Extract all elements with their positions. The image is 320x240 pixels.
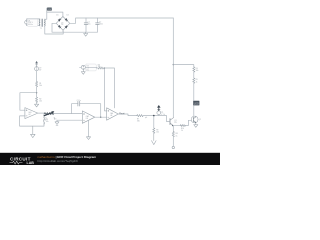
diode D3 xyxy=(58,25,61,28)
node reference split xyxy=(104,67,105,68)
wire R8 to terminal xyxy=(172,137,174,147)
wire op-amp1 output xyxy=(38,112,54,115)
net flag LED node xyxy=(193,101,199,106)
svg-text:http://circuitlab.com/c/7eq5g4: http://circuitlab.com/c/7eq5g4r9 xyxy=(38,159,79,163)
resistor R4 xyxy=(193,67,199,72)
svg-text:1k: 1k xyxy=(181,130,183,132)
node probe tap xyxy=(153,115,155,117)
terminal node xyxy=(172,146,174,148)
wire probe stem xyxy=(158,115,160,116)
resistor R7 xyxy=(137,115,143,123)
svg-text:10u: 10u xyxy=(88,24,91,26)
node rail branch xyxy=(173,64,174,65)
diode D2 xyxy=(65,18,68,21)
resistor R3 (feedback) xyxy=(44,114,49,125)
wire thermistor to op-amp2 -in xyxy=(54,113,82,115)
svg-text:100n: 100n xyxy=(99,24,103,26)
svg-text:T1: T1 xyxy=(40,28,42,30)
wire main V+ rail down right side xyxy=(172,18,174,117)
svg-text:10k: 10k xyxy=(196,70,199,72)
voltage source V3 (reference) xyxy=(81,64,96,71)
svg-text:D1: D1 xyxy=(56,14,58,16)
node op-amp2 out xyxy=(100,117,101,118)
node divider tap xyxy=(36,92,37,93)
svg-text:LED: LED xyxy=(194,101,199,105)
resistor R9 (pulldown) xyxy=(153,128,159,134)
capacitor C2 xyxy=(96,18,103,32)
transistor Q1 xyxy=(170,117,177,126)
V1 label box xyxy=(27,19,37,26)
diode D1 xyxy=(58,18,61,21)
svg-text:10k: 10k xyxy=(39,85,42,87)
wire transformer secondary bottom to bridge bottom node xyxy=(44,26,63,34)
ground (supply) xyxy=(84,32,88,36)
CircuitLab logo xyxy=(10,157,35,165)
wire op-amp2 out to op-amp3 -in xyxy=(95,116,107,118)
svg-text:Q2: Q2 xyxy=(199,119,201,121)
capacitor C3 (feedback) xyxy=(77,100,81,106)
footer bar xyxy=(0,153,220,165)
svg-text:1k: 1k xyxy=(163,114,165,116)
svg-text:330: 330 xyxy=(137,121,140,123)
svg-text:10k: 10k xyxy=(98,66,101,68)
transistor Q2 xyxy=(191,116,201,123)
wire branch to LED chain xyxy=(173,65,194,67)
ground arrow (feedback) xyxy=(31,126,36,138)
op-amp OA2 xyxy=(82,111,95,123)
svg-text:P1: P1 xyxy=(161,112,163,114)
resistor R10 (base) xyxy=(180,125,185,133)
svg-text:D4: D4 xyxy=(61,24,63,26)
wire V3 to reference node xyxy=(85,66,98,69)
wire V1 top to transformer primary xyxy=(27,19,40,21)
svg-text:1k: 1k xyxy=(176,135,178,137)
probe P1 xyxy=(157,105,163,116)
thermistor RT1 xyxy=(43,111,55,121)
svg-text:10k: 10k xyxy=(39,101,42,103)
wire V2 to R1 xyxy=(36,71,38,82)
op-amp OA3 xyxy=(107,108,119,120)
wire R5 down to Q2 collector xyxy=(193,83,195,116)
resistor R6 (reference) xyxy=(98,64,104,69)
wire R7 to Q1 base xyxy=(143,116,169,122)
ground (Q2 emitter) xyxy=(194,123,198,127)
wire R4 to R5 xyxy=(193,72,195,78)
wire base pulldown xyxy=(153,116,155,128)
svg-text:1k: 1k xyxy=(196,81,198,83)
ground (divider) xyxy=(35,102,39,107)
wire op-amp3 out to R7 xyxy=(118,114,137,116)
net label V2 flag xyxy=(35,61,38,67)
wire V1 bottom to transformer primary xyxy=(27,24,40,26)
wire feedback cap branch xyxy=(72,104,101,118)
wire op-amp2 V- pin to ground xyxy=(88,120,90,137)
capacitor C1 xyxy=(84,18,90,32)
bridge value label xyxy=(61,22,63,26)
svg-text:10k: 10k xyxy=(46,121,49,123)
wire ground to op-amp2 +in xyxy=(57,119,82,121)
wire op-amp1 -in feedback loop xyxy=(20,116,44,126)
ground (op-amp2 +in) xyxy=(55,120,59,125)
svg-text:R6: R6 xyxy=(98,64,100,66)
svg-text:10k: 10k xyxy=(43,120,46,122)
net flag VAC xyxy=(47,8,52,13)
ground (op-amp2 supply) xyxy=(86,137,90,140)
svg-text:C3 1u: C3 1u xyxy=(77,100,81,102)
diode D4 xyxy=(65,25,68,28)
voltage source V2 xyxy=(35,67,43,72)
resistor R5 xyxy=(193,78,198,83)
resistor R2 xyxy=(35,97,42,103)
op-amp OA1 xyxy=(25,108,38,119)
svg-text:D2: D2 xyxy=(67,14,69,16)
resistor R1 xyxy=(35,82,42,88)
ground (V3) xyxy=(81,69,85,74)
wire reference to op-amp3 xyxy=(104,68,115,111)
ground arrow (pulldown) xyxy=(152,133,157,144)
svg-text:60 Hz: 60 Hz xyxy=(28,24,33,26)
resistor R8 (emitter) xyxy=(172,132,178,138)
wire Q1 emitter to R8 xyxy=(172,126,174,132)
wire divider tap to op-amp1 +in xyxy=(20,93,37,111)
wire Q1 emitter to R10 to Q2 base xyxy=(173,120,191,125)
voltage source V1 (AC) xyxy=(25,20,29,24)
svg-text:10k: 10k xyxy=(156,132,159,134)
wire V3 left stub to ground xyxy=(80,66,82,68)
transformer T1 xyxy=(39,19,45,27)
svg-text:LAB: LAB xyxy=(27,161,35,165)
wire bridge bottom vertex stub xyxy=(62,30,64,32)
wire transformer secondary top to bridge top node xyxy=(44,12,63,19)
wire bridge + output to top rail xyxy=(70,18,174,23)
diode bridge outline xyxy=(56,17,70,31)
wire R1 to divider node xyxy=(36,87,38,97)
wire bridge - output / bottom rail xyxy=(52,23,97,32)
